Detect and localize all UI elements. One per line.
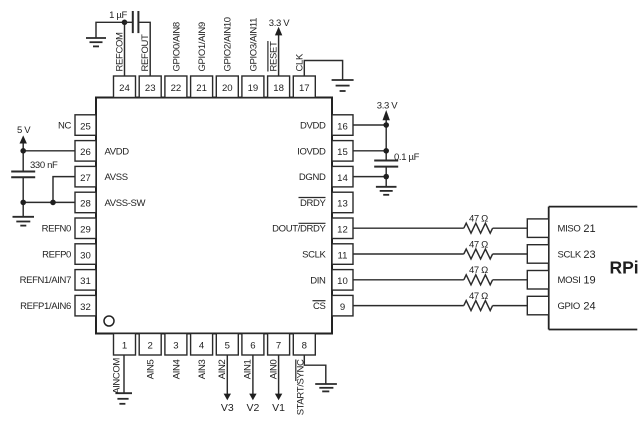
pin 11 box xyxy=(332,244,353,264)
svg-text:AIN2: AIN2 xyxy=(217,359,228,379)
svg-text:19: 19 xyxy=(248,83,259,94)
svg-text:11: 11 xyxy=(338,250,348,261)
pin 15 box xyxy=(332,141,353,162)
svg-text:AIN3: AIN3 xyxy=(197,359,208,379)
node dot F xyxy=(383,148,389,154)
pin 9 box xyxy=(332,295,353,316)
svg-text:330 nF: 330 nF xyxy=(30,160,58,171)
svg-text:GPIO1/AIN9: GPIO1/AIN9 xyxy=(197,22,208,71)
svg-text:23: 23 xyxy=(583,249,595,261)
RPi pin box MISO xyxy=(527,219,548,238)
svg-text:GPIO3/AIN11: GPIO3/AIN11 xyxy=(248,18,259,72)
svg-text:V2: V2 xyxy=(246,402,259,414)
pin 16 box xyxy=(332,115,353,136)
wire R1 to RPi MISO xyxy=(493,227,528,229)
pin 22 box xyxy=(165,76,187,98)
svg-text:AIN5: AIN5 xyxy=(146,359,157,379)
svg-text:DOUT/DRDY: DOUT/DRDY xyxy=(272,224,326,235)
wire AVSS-SW pin28 xyxy=(23,201,75,203)
svg-text:47 Ω: 47 Ω xyxy=(469,265,488,276)
pin 6 box xyxy=(242,334,264,356)
ground G2 (CLK) xyxy=(332,80,354,91)
svg-text:5: 5 xyxy=(225,341,230,352)
svg-text:31: 31 xyxy=(80,276,91,287)
overline SYNC xyxy=(295,360,297,382)
svg-text:SCLK: SCLK xyxy=(302,250,326,261)
wire pin17 CLK to ground xyxy=(304,61,342,81)
RPi box xyxy=(549,207,638,330)
svg-text:3.3 V: 3.3 V xyxy=(269,18,290,29)
wire AIN2 pin5 to V3 xyxy=(226,355,228,395)
capacitor C3 0.1uF plates xyxy=(374,161,398,167)
svg-text:START/SYNC: START/SYNC xyxy=(295,359,306,415)
svg-text:REFP1/AIN6: REFP1/AIN6 xyxy=(20,301,71,312)
arrow V2 xyxy=(249,394,256,401)
pin 18 box xyxy=(268,76,290,98)
svg-text:CS: CS xyxy=(313,301,326,312)
pin 25 box xyxy=(75,115,96,136)
wire AVSS pin27 L xyxy=(53,177,75,203)
svg-text:DRDY: DRDY xyxy=(300,198,327,209)
resistor R3 47ohm xyxy=(464,275,493,285)
svg-text:AVDD: AVDD xyxy=(105,146,130,157)
svg-text:24: 24 xyxy=(583,300,595,312)
svg-text:REFOUT: REFOUT xyxy=(140,34,151,72)
capacitor C2 330nF plates xyxy=(11,172,35,178)
svg-text:28: 28 xyxy=(80,199,91,210)
wire 3.3V rail right xyxy=(385,120,387,161)
wire R4 to RPi GPIO xyxy=(493,305,528,307)
svg-text:15: 15 xyxy=(337,147,348,158)
pin 1 box xyxy=(114,334,136,356)
svg-text:RESET: RESET xyxy=(269,41,280,71)
resistor R4 47ohm xyxy=(464,301,493,311)
pin 13 box xyxy=(332,192,353,213)
svg-text:AIN4: AIN4 xyxy=(171,359,182,379)
resistor R2 47ohm xyxy=(464,249,493,259)
pin 7 box xyxy=(268,334,290,356)
svg-text:0.1 µF: 0.1 µF xyxy=(394,152,420,163)
wire cap left lead xyxy=(125,21,133,23)
svg-text:3: 3 xyxy=(173,341,178,352)
node dot D xyxy=(50,200,56,206)
svg-text:18: 18 xyxy=(273,83,284,94)
svg-text:RPi: RPi xyxy=(610,258,639,278)
svg-text:GPIO2/AIN10: GPIO2/AIN10 xyxy=(223,17,234,71)
svg-text:1: 1 xyxy=(122,341,127,352)
svg-text:AIN0: AIN0 xyxy=(268,359,279,379)
svg-text:DIN: DIN xyxy=(310,275,326,286)
svg-text:AINCOM: AINCOM xyxy=(111,358,122,394)
wire CS pin9 to R4 xyxy=(353,305,464,307)
node dot G xyxy=(383,174,389,180)
svg-text:V1: V1 xyxy=(272,402,285,414)
node dot C xyxy=(20,200,26,206)
svg-text:5 V: 5 V xyxy=(17,125,31,136)
node dot B xyxy=(20,148,26,154)
svg-text:MOSI: MOSI xyxy=(558,275,581,286)
pin 8 box xyxy=(293,334,315,356)
svg-text:47 Ω: 47 Ω xyxy=(469,214,488,225)
pin 17 box xyxy=(293,76,315,98)
wire R2 to RPi SCLK xyxy=(493,253,528,255)
svg-text:29: 29 xyxy=(80,225,91,236)
resistor R1 47ohm xyxy=(464,223,493,233)
pin 29 box xyxy=(75,218,96,239)
svg-text:SCLK: SCLK xyxy=(558,249,582,260)
pin 4 box xyxy=(191,334,213,356)
svg-text:DVDD: DVDD xyxy=(300,121,326,132)
svg-text:22: 22 xyxy=(171,83,182,94)
wire START/SYNC pin8 to ground xyxy=(304,355,326,384)
wire cap to ground xyxy=(385,167,387,187)
pin 32 box xyxy=(75,295,96,316)
pin 24 box xyxy=(114,76,136,98)
wire 5V rail down xyxy=(22,143,24,172)
wire pin18 RESET to 3.3V xyxy=(278,35,280,77)
svg-text:3.3 V: 3.3 V xyxy=(377,100,398,111)
svg-text:19: 19 xyxy=(583,275,595,287)
wire AIN0 pin7 to V1 xyxy=(278,355,280,395)
pin 23 box xyxy=(139,76,161,98)
svg-text:REFCOM: REFCOM xyxy=(115,32,126,72)
wire DOUT pin12 to R1 xyxy=(353,227,464,229)
svg-text:4: 4 xyxy=(199,341,205,352)
pin 26 box xyxy=(75,141,96,162)
overline DRDY part xyxy=(299,222,326,224)
RPi pin box GPIO xyxy=(527,296,548,315)
svg-text:REFN0: REFN0 xyxy=(42,224,71,235)
svg-text:47 Ω: 47 Ω xyxy=(469,239,488,250)
svg-text:CLK: CLK xyxy=(294,53,305,71)
svg-text:IOVDD: IOVDD xyxy=(297,146,326,157)
RPi pin box SCLK xyxy=(527,245,548,264)
pin 12 box xyxy=(332,218,353,239)
svg-text:AIN1: AIN1 xyxy=(243,359,254,379)
supply arrow 3.3V (RESET) xyxy=(275,27,282,36)
node dot A xyxy=(122,20,128,26)
svg-text:9: 9 xyxy=(340,302,345,313)
pin 27 box xyxy=(75,166,96,187)
wire DIN pin10 to R3 xyxy=(353,279,464,281)
svg-text:AVSS-SW: AVSS-SW xyxy=(105,198,146,209)
IC body U1 xyxy=(96,98,332,334)
overline RESET xyxy=(267,41,269,72)
svg-text:GPIO0/AIN8: GPIO0/AIN8 xyxy=(171,22,182,71)
svg-text:13: 13 xyxy=(337,199,348,210)
svg-text:V3: V3 xyxy=(221,402,234,414)
arrow V3 xyxy=(224,394,231,401)
wire node to left ground xyxy=(96,22,125,38)
svg-text:16: 16 xyxy=(337,121,348,132)
arrow V1 xyxy=(275,394,282,401)
svg-text:MISO: MISO xyxy=(558,224,581,235)
svg-text:2: 2 xyxy=(148,341,153,352)
supply arrow 5V xyxy=(20,135,27,143)
RPi pin box MOSI xyxy=(527,271,548,290)
svg-text:24: 24 xyxy=(119,83,130,94)
svg-text:7: 7 xyxy=(276,341,281,352)
svg-text:12: 12 xyxy=(337,225,348,236)
svg-text:GPIO: GPIO xyxy=(558,301,580,312)
svg-text:26: 26 xyxy=(80,147,91,158)
svg-text:14: 14 xyxy=(337,173,348,184)
wire AVDD pin26 xyxy=(23,150,75,152)
capacitor C1 1uF plates xyxy=(133,11,139,33)
pin 21 box xyxy=(191,76,213,98)
svg-text:25: 25 xyxy=(80,121,91,132)
pin-1 indicator circle xyxy=(104,316,114,326)
node dot E xyxy=(383,122,389,128)
svg-text:10: 10 xyxy=(337,276,348,287)
pin 20 box xyxy=(216,76,238,98)
pin 14 box xyxy=(332,166,353,187)
ground G5 (AINCOM) xyxy=(115,393,132,404)
svg-text:20: 20 xyxy=(222,83,233,94)
pin 10 box xyxy=(332,270,353,291)
svg-text:REFP0: REFP0 xyxy=(42,249,71,260)
svg-text:23: 23 xyxy=(145,83,156,94)
ground G3 (AVSS) xyxy=(13,217,35,226)
ground G6 (START/SYNC) xyxy=(315,384,337,391)
svg-text:NC: NC xyxy=(58,120,72,131)
ground G1 (REFCOM) xyxy=(86,38,106,46)
pin 2 box xyxy=(139,334,161,356)
svg-text:1 µF: 1 µF xyxy=(109,10,127,21)
svg-text:32: 32 xyxy=(80,302,91,313)
pin 3 box xyxy=(165,334,187,356)
wire cap to ground rail xyxy=(22,177,24,217)
svg-text:17: 17 xyxy=(299,83,310,94)
svg-text:REFN1/AIN7: REFN1/AIN7 xyxy=(20,275,71,286)
pin 30 box xyxy=(75,244,96,264)
wire cap right to pin23 xyxy=(138,22,150,76)
wire SCLK pin11 to R2 xyxy=(353,253,464,255)
wire pin24 REFCOM up xyxy=(124,22,126,76)
svg-text:6: 6 xyxy=(250,341,255,352)
ground G4 (DGND) xyxy=(376,187,397,195)
overline DRDY xyxy=(299,197,326,199)
svg-text:8: 8 xyxy=(302,341,307,352)
svg-text:21: 21 xyxy=(583,223,595,235)
pin 5 box xyxy=(216,334,238,356)
wire R3 to RPi MOSI xyxy=(493,279,528,281)
svg-text:27: 27 xyxy=(80,173,91,184)
pin 31 box xyxy=(75,270,96,291)
supply arrow 3.3V (DVDD) xyxy=(383,110,390,120)
wire AINCOM pin1 to ground xyxy=(123,355,125,393)
wire DVDD pin16 xyxy=(353,124,386,126)
wire IOVDD pin15 xyxy=(353,150,386,152)
svg-text:47 Ω: 47 Ω xyxy=(469,291,488,302)
svg-text:AVSS: AVSS xyxy=(105,172,128,183)
wire AIN1 pin6 to V2 xyxy=(252,355,254,395)
overline CS xyxy=(313,300,326,302)
svg-text:DGND: DGND xyxy=(299,172,326,183)
svg-text:21: 21 xyxy=(196,83,207,94)
pin 19 box xyxy=(242,76,264,98)
wire DGND pin14 xyxy=(353,176,386,178)
svg-text:30: 30 xyxy=(80,250,91,261)
pin 28 box xyxy=(75,192,96,213)
